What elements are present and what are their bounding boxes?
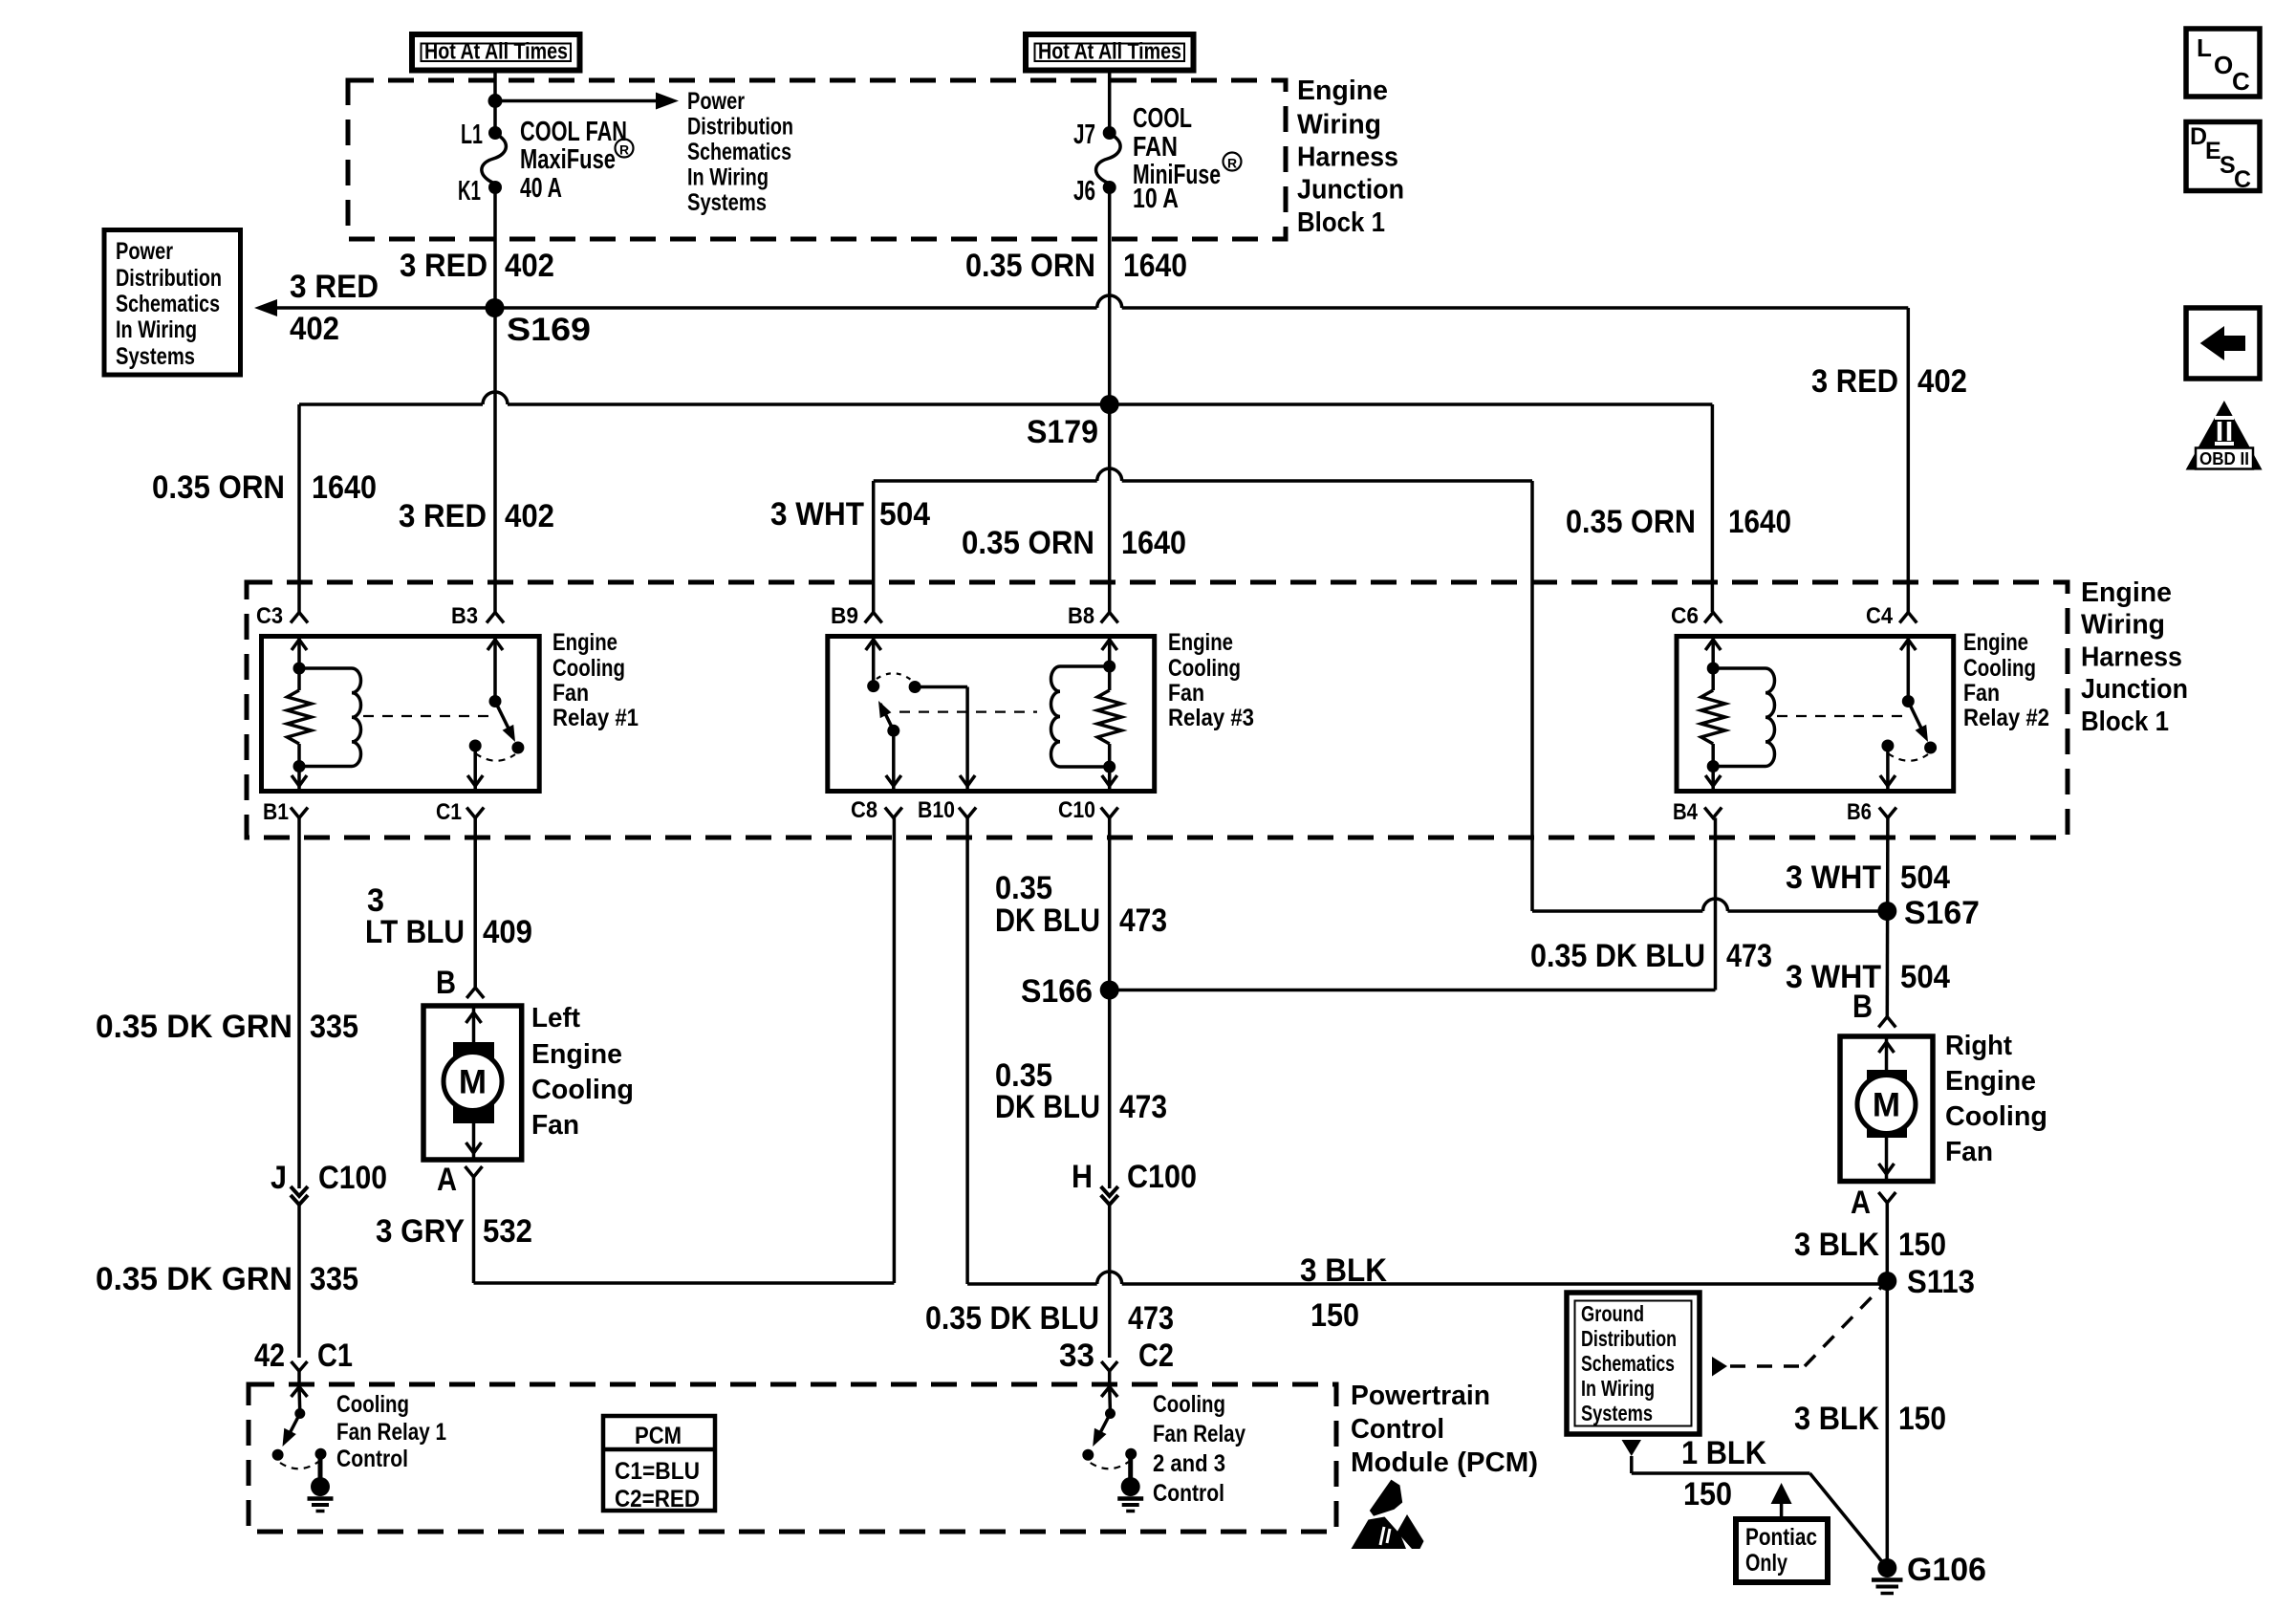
svg-text:532: 532: [483, 1213, 532, 1250]
svg-text:C6: C6: [1671, 603, 1699, 629]
relay #3 coil-switch linkage (dashed): [899, 710, 1037, 712]
relay #3 switch NC contact wire to C8: [887, 725, 899, 737]
wire: battery feed into fuse F2 (x=1160.7): [1108, 69, 1112, 133]
svg-text:S167: S167: [1904, 895, 1980, 931]
relay #3 switch alternate-position dotted arc: [877, 673, 911, 680]
svg-text:Cooling: Cooling: [336, 1391, 409, 1418]
svg-text:C100: C100: [318, 1160, 387, 1196]
PCM driver 1 alternate-position dashed arc: [280, 1462, 318, 1469]
svg-text:3 RED: 3 RED: [1811, 363, 1898, 400]
svg-text:Ground: Ground: [1581, 1301, 1644, 1326]
svg-text:Pontiac: Pontiac: [1745, 1524, 1817, 1551]
wire: battery feed into fuse F1 (x=518): [493, 71, 497, 134]
svg-text:L: L: [2197, 33, 2212, 62]
wire: 3 RED 402 from fuse F1 K1 down to S169: [493, 187, 497, 308]
svg-text:3 RED: 3 RED: [290, 269, 379, 305]
svg-text:C10: C10: [1058, 797, 1095, 823]
annotation box: Power Distribution Schematics In Wiring Systems: [104, 230, 241, 376]
svg-text:409: 409: [483, 914, 532, 950]
svg-text:COOL: COOL: [1133, 103, 1192, 134]
relay K2 box: Engine Cooling Fan Relay #2: [1677, 637, 1954, 792]
relay #2 coil-switch linkage (dashed): [1777, 715, 1906, 717]
wire: 1 BLK 150 from ground distribution to G106: [1622, 1440, 1642, 1456]
svg-text:Fan: Fan: [531, 1110, 579, 1141]
PCM driver 1 ground contact: [315, 1448, 327, 1460]
svg-text:G106: G106: [1907, 1552, 1986, 1588]
wire: 3 BLK 150 from relay #3 B10 to S113: [965, 818, 969, 1285]
svg-text:Block 1: Block 1: [1297, 207, 1385, 238]
wire: 3 LT BLU 409 from relay #1 C1 to left fan B: [473, 818, 477, 988]
svg-text:Engine: Engine: [1945, 1066, 2036, 1097]
svg-text:0.35 ORN: 0.35 ORN: [1566, 504, 1696, 540]
svg-text:Engine: Engine: [1963, 629, 2028, 656]
relay #1 coil: [299, 666, 352, 670]
relay #2 switch blade: [1908, 702, 1925, 737]
relay #3 resistor (parallel with coil): [1108, 666, 1112, 690]
relay #1 switch common from B3: [493, 637, 497, 702]
svg-text:Control: Control: [1153, 1480, 1224, 1507]
svg-text:Distribution: Distribution: [116, 265, 222, 292]
junction S179: [1100, 395, 1119, 414]
svg-text:3 WHT: 3 WHT: [770, 496, 864, 533]
svg-text:M: M: [459, 1064, 487, 1101]
svg-text:C1=BLU: C1=BLU: [615, 1458, 700, 1485]
svg-text:1640: 1640: [1121, 525, 1186, 561]
svg-text:M: M: [1873, 1087, 1900, 1124]
ground symbol inside PCM (driver 1): [318, 1457, 323, 1480]
relay #1 coil output wire to B1: [293, 760, 306, 772]
relay #1 switch output to C1: [469, 740, 482, 752]
svg-text:Schematics: Schematics: [1581, 1351, 1675, 1376]
svg-text:Junction: Junction: [2081, 674, 2188, 705]
PCM legend box: PCM / C1=BLU / C2=RED: [603, 1416, 715, 1511]
svg-text:C2: C2: [1138, 1338, 1174, 1374]
svg-text:473: 473: [1128, 1300, 1174, 1337]
svg-text:J6: J6: [1073, 176, 1095, 207]
wire: 0.35 DK GRN 335 from relay #1 B1 to PCM pin 42: [297, 818, 301, 1189]
svg-text:3 BLK: 3 BLK: [1794, 1227, 1879, 1263]
relay #2 coil output to B4: [1707, 760, 1720, 772]
svg-text:C1: C1: [317, 1338, 353, 1374]
svg-text:C: C: [2232, 67, 2250, 96]
svg-text:3 BLK: 3 BLK: [1794, 1401, 1879, 1437]
PCM driver 2 alternate-position dashed arc: [1091, 1462, 1129, 1469]
ground symbol inside PCM (driver 2): [1128, 1457, 1133, 1480]
svg-text:In Wiring: In Wiring: [116, 316, 197, 343]
svg-text:B9: B9: [831, 603, 858, 629]
relay #3 coil: [1060, 664, 1110, 668]
svg-text:A: A: [1851, 1185, 1871, 1221]
annotation box: Ground Distribution Schematics In Wiring Systems: [1567, 1293, 1700, 1434]
svg-text:C4: C4: [1866, 603, 1894, 629]
svg-text:Engine: Engine: [531, 1039, 622, 1070]
svg-text:Cooling: Cooling: [552, 655, 625, 682]
svg-text:L1: L1: [461, 120, 483, 150]
relay #2 switch NO contact: [1924, 742, 1937, 754]
svg-text:B: B: [1852, 989, 1873, 1025]
wire: arrow to Power Distribution Schematics (top): [495, 99, 658, 103]
wire: 0.35 DK BLU 473 below C100 to PCM pin 33: [1108, 1204, 1112, 1358]
wire: 0.35 DK BLU 473 from S166 down to C100 H: [1108, 990, 1112, 1189]
svg-text:Engine: Engine: [2081, 577, 2172, 608]
svg-text:C: C: [2234, 166, 2251, 193]
svg-text:3 GRY: 3 GRY: [376, 1213, 465, 1250]
svg-text:1640: 1640: [1728, 504, 1791, 540]
svg-text:Cooling: Cooling: [531, 1075, 634, 1105]
wire: 3 GRY 532 from left fan A to relay #3 C8: [472, 1177, 476, 1283]
svg-text:0.35 DK BLU: 0.35 DK BLU: [925, 1300, 1099, 1337]
off-page pointer from ground distribution box (dashed to S113): [1712, 1357, 1727, 1377]
svg-text:C1: C1: [436, 799, 462, 825]
svg-text:Schematics: Schematics: [116, 291, 220, 317]
svg-text:J7: J7: [1073, 120, 1095, 150]
PCM driver 2 open contact: [1082, 1449, 1094, 1461]
ground G106: [1877, 1558, 1896, 1577]
svg-text:S179: S179: [1027, 414, 1098, 450]
svg-text:J: J: [271, 1160, 287, 1196]
wire: 3 WHT 504 bus from relay #3 B9 over to S167: [872, 481, 876, 612]
engine wiring harness junction block 1 (middle) dashed boundary: [247, 582, 2068, 838]
svg-text:MaxiFuse: MaxiFuse: [520, 144, 616, 175]
relay #3 coil output to C10: [1103, 761, 1116, 773]
svg-text:Wiring: Wiring: [2081, 610, 2165, 641]
svg-text:0.35 DK BLU: 0.35 DK BLU: [1530, 938, 1705, 974]
svg-text:B10: B10: [918, 797, 955, 823]
junction S113: [1877, 1272, 1896, 1291]
svg-text:C2=RED: C2=RED: [615, 1486, 700, 1512]
svg-text:0.35 ORN: 0.35 ORN: [965, 248, 1095, 284]
svg-text:Distribution: Distribution: [1581, 1326, 1677, 1351]
fuse F1 COOL FAN MaxiFuse element: [482, 134, 507, 184]
svg-text:R: R: [1227, 156, 1237, 171]
svg-text:R: R: [619, 142, 629, 158]
relay #1 coil input wire from C3: [297, 637, 301, 669]
svg-text:0.35 ORN: 0.35 ORN: [962, 525, 1094, 561]
svg-text:Systems: Systems: [116, 343, 195, 370]
fuse F2 COOL FAN MiniFuse element: [1096, 134, 1121, 184]
label box: Hot At All Times (left feed): [412, 34, 580, 71]
svg-text:40 A: 40 A: [520, 173, 562, 204]
svg-text:Relay #3: Relay #3: [1168, 705, 1254, 731]
svg-text:0.35: 0.35: [995, 870, 1052, 906]
relay #1 switch alternate-position dashed arc: [475, 753, 515, 761]
svg-text:0.35 ORN: 0.35 ORN: [152, 469, 285, 506]
svg-text:150: 150: [1898, 1227, 1946, 1263]
junction S169: [486, 298, 505, 317]
svg-text:3 WHT: 3 WHT: [1786, 859, 1881, 896]
junction S167: [1877, 902, 1896, 921]
right engine cooling fan motor M box: [1840, 1036, 1933, 1182]
relay #3 switch common from B9: [872, 637, 876, 686]
svg-text:Left: Left: [531, 1003, 580, 1033]
svg-text:42: 42: [254, 1338, 285, 1374]
svg-text:Hot At All Times: Hot At All Times: [424, 39, 568, 65]
svg-text:33: 33: [1059, 1338, 1094, 1374]
svg-text:Harness: Harness: [1297, 142, 1398, 173]
relay #1 switch NO contact: [511, 742, 524, 754]
svg-text:Power: Power: [116, 238, 173, 265]
svg-text:473: 473: [1119, 903, 1167, 939]
svg-text:Cooling: Cooling: [1963, 655, 2036, 682]
svg-text:504: 504: [1900, 959, 1950, 995]
PCM driver 1 open contact: [272, 1449, 284, 1461]
svg-text:A: A: [437, 1162, 457, 1198]
label box: Hot At All Times (right feed): [1026, 34, 1194, 71]
svg-text:Wiring: Wiring: [1297, 110, 1381, 141]
icon: LOC reference box: [2186, 29, 2260, 97]
svg-text:Cooling: Cooling: [1168, 655, 1241, 682]
svg-text:3 RED: 3 RED: [399, 498, 487, 534]
relay #2 switch output to B6: [1881, 740, 1894, 752]
wire: 3 WHT 504 from relay #2 B6 through S167 to right fan B: [1886, 818, 1890, 1017]
svg-text:Control: Control: [1351, 1414, 1444, 1445]
svg-text:FAN: FAN: [1133, 132, 1178, 163]
svg-text:Fan: Fan: [552, 680, 589, 707]
relay #2 resistor (parallel with coil): [1711, 668, 1715, 690]
left engine cooling fan motor M box: [423, 1006, 522, 1160]
relay #3 switch right contact wire to B10: [909, 681, 921, 693]
svg-text:150: 150: [1898, 1401, 1946, 1437]
svg-text:Block 1: Block 1: [2081, 707, 2169, 737]
relay K1 box: Engine Cooling Fan Relay #1: [262, 637, 540, 792]
svg-text:B8: B8: [1068, 603, 1094, 629]
svg-text:Harness: Harness: [2081, 642, 2182, 673]
svg-text:Relay #1: Relay #1: [552, 705, 639, 731]
wire: 0.35 DK BLU 473 from relay #3 C10 down to S166: [1108, 818, 1112, 990]
relay #1 resistor (parallel with coil): [297, 668, 301, 690]
svg-text:402: 402: [1917, 363, 1967, 400]
svg-text:PCM: PCM: [635, 1423, 682, 1449]
wire: 3 RED 402 off-page arrow to Power Distribution: [273, 306, 495, 310]
svg-text:OBD II: OBD II: [2199, 449, 2249, 468]
svg-text:Engine: Engine: [1297, 76, 1388, 106]
svg-text:504: 504: [1900, 859, 1950, 896]
PCM driver 1: arrow to pin 42: [292, 1387, 308, 1398]
svg-text:Junction: Junction: [1297, 175, 1404, 206]
svg-text:O: O: [2214, 51, 2233, 79]
svg-text:Distribution: Distribution: [687, 114, 793, 141]
svg-text:Right: Right: [1945, 1031, 2012, 1061]
svg-text:10 A: 10 A: [1133, 184, 1179, 214]
PCM driver 1 switch pivot: [294, 1408, 305, 1419]
svg-text:B1: B1: [263, 799, 289, 825]
relay #2 switch alternate-position dashed arc: [1888, 753, 1928, 761]
wire: 0.35 DK GRN 335 below C100: [297, 1204, 301, 1358]
icon: OBD II triangle: [2186, 401, 2263, 470]
powertrain control module (PCM) dashed boundary: [249, 1384, 1336, 1532]
svg-text:Cooling: Cooling: [1945, 1101, 2047, 1132]
svg-text:Systems: Systems: [1581, 1401, 1653, 1425]
svg-text:B3: B3: [451, 603, 478, 629]
svg-text:B: B: [436, 965, 456, 1001]
icon: back arrow box: [2186, 308, 2260, 379]
svg-text:150: 150: [1683, 1476, 1732, 1512]
svg-text:1640: 1640: [312, 469, 377, 506]
svg-text:Cooling: Cooling: [1153, 1391, 1225, 1418]
svg-text:Power: Power: [687, 88, 745, 115]
wire: 3 RED 402 bus from S169 to relay #2 C4: [495, 306, 1097, 310]
svg-text:Hot At All Times: Hot At All Times: [1038, 39, 1181, 65]
PCM driver 2 switch blade: [1097, 1414, 1111, 1440]
node: tap to power distribution arrow: [488, 94, 503, 108]
svg-text:473: 473: [1119, 1089, 1167, 1125]
svg-text:3 BLK: 3 BLK: [1300, 1252, 1387, 1289]
svg-text:Fan Relay: Fan Relay: [1153, 1421, 1245, 1447]
wire: 0.35 ORN 1640 from fuse F2 down through S179 to relay #3 B8: [1108, 187, 1112, 612]
svg-text:Fan: Fan: [1168, 680, 1204, 707]
svg-text:Fan Relay 1: Fan Relay 1: [336, 1419, 446, 1446]
svg-text:335: 335: [310, 1009, 358, 1045]
svg-text:Module (PCM): Module (PCM): [1351, 1447, 1538, 1478]
svg-text:1640: 1640: [1123, 248, 1187, 284]
svg-text:C100: C100: [1127, 1159, 1197, 1195]
svg-text:Schematics: Schematics: [687, 139, 791, 165]
wire: 3 BLK 150 from right fan A through S113 to G106: [1886, 1203, 1890, 1568]
svg-text:COOL FAN: COOL FAN: [520, 117, 627, 147]
PCM driver 1 switch blade: [287, 1414, 300, 1440]
svg-text:Fan: Fan: [1945, 1137, 1993, 1167]
arrow from Pontiac Only box to 1 BLK wire: [1780, 1501, 1784, 1519]
svg-text:335: 335: [310, 1261, 358, 1297]
svg-text:Engine: Engine: [552, 629, 617, 656]
relay #2 coil input from C6: [1711, 637, 1715, 669]
svg-text:S113: S113: [1907, 1264, 1975, 1300]
svg-text:H: H: [1072, 1159, 1093, 1195]
PCM driver 2 switch pivot: [1105, 1408, 1116, 1419]
relay #2 coil: [1713, 666, 1765, 670]
svg-text:S166: S166: [1021, 973, 1093, 1010]
svg-text:B4: B4: [1673, 799, 1699, 825]
svg-text:Control: Control: [336, 1446, 408, 1472]
PCM driver 2 ground contact: [1125, 1448, 1137, 1460]
svg-text:LT BLU: LT BLU: [365, 914, 465, 950]
svg-text:473: 473: [1726, 938, 1772, 974]
svg-text:B6: B6: [1847, 799, 1872, 825]
icon: DESC reference box: [2186, 122, 2260, 191]
svg-text:Engine: Engine: [1168, 629, 1233, 656]
svg-text:DK BLU: DK BLU: [995, 1089, 1100, 1125]
svg-text:S169: S169: [507, 312, 591, 348]
annotation box: Pontiac Only: [1736, 1519, 1828, 1582]
relay #3 switch blade: [880, 704, 894, 730]
ESD static-sensitive device symbol: [1370, 1480, 1402, 1516]
PCM driver 2: arrow to pin 33: [1101, 1387, 1117, 1398]
svg-text:1 BLK: 1 BLK: [1681, 1435, 1766, 1471]
svg-text:0.35 DK GRN: 0.35 DK GRN: [96, 1261, 292, 1297]
svg-text:C3: C3: [256, 603, 283, 629]
svg-text:402: 402: [505, 248, 554, 284]
svg-text:402: 402: [290, 311, 339, 347]
relay #3 coil input from B8: [1108, 637, 1112, 667]
svg-text:Fan: Fan: [1963, 680, 2000, 707]
svg-text:150: 150: [1310, 1297, 1359, 1334]
svg-text:0.35 DK GRN: 0.35 DK GRN: [96, 1009, 292, 1045]
wire: 0.35 ORN 1640 branch bus (C3 to C6): [299, 402, 483, 406]
svg-text:C8: C8: [851, 797, 877, 823]
svg-text:2 and 3: 2 and 3: [1153, 1450, 1225, 1477]
wire: 0.35 DK BLU 473 from S166 right to relay #2 B4: [1110, 989, 1716, 992]
svg-text:3 RED: 3 RED: [400, 248, 487, 284]
wire: 3 RED 402 from S169 down to relay #1 B3: [493, 308, 497, 612]
svg-text:Relay #2: Relay #2: [1963, 705, 2049, 731]
svg-text:504: 504: [879, 496, 930, 533]
svg-text:Systems: Systems: [687, 189, 767, 216]
relay #1 switch blade: [495, 702, 512, 737]
engine wiring harness junction block 1 (top) dashed boundary: [348, 80, 1286, 239]
junction S166: [1100, 981, 1119, 1000]
relay #1 coil-switch linkage (dashed): [363, 715, 493, 717]
svg-text:Only: Only: [1745, 1550, 1787, 1577]
svg-text:In Wiring: In Wiring: [687, 164, 769, 191]
svg-text:K1: K1: [458, 176, 481, 207]
svg-text:402: 402: [505, 498, 554, 534]
svg-text:DK BLU: DK BLU: [995, 903, 1100, 939]
svg-text:In Wiring: In Wiring: [1581, 1376, 1655, 1401]
relay #2 switch common from C4: [1907, 637, 1911, 702]
svg-text:Powertrain: Powertrain: [1351, 1381, 1490, 1411]
relay K3 box: Engine Cooling Fan Relay #3: [828, 637, 1155, 792]
